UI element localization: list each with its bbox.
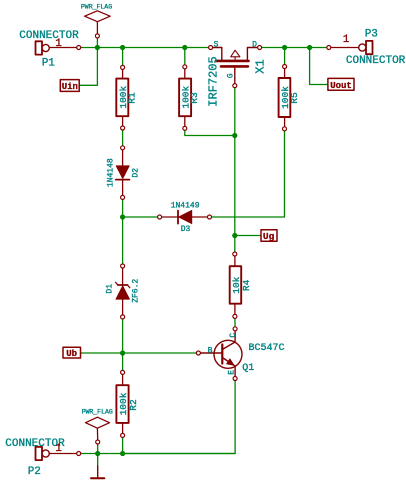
wire emitter to bottom rail <box>123 379 236 454</box>
pin R4 bottom end <box>233 314 237 318</box>
wire Uin vertical <box>79 48 97 86</box>
svg-text:CONNECTOR: CONNECTOR <box>346 55 406 67</box>
resistor R2 <box>116 374 128 433</box>
svg-text:D3: D3 <box>181 225 191 234</box>
wire pwrflag2 stub <box>97 442 99 454</box>
node top rail R3 <box>182 45 187 50</box>
pin X1 G end <box>233 84 237 88</box>
wire top rail left <box>79 47 211 49</box>
pin R3 bottom end <box>183 126 187 130</box>
svg-text:R1: R1 <box>127 92 138 104</box>
svg-text:R2: R2 <box>128 399 139 411</box>
pin D3 cathode end <box>158 215 162 219</box>
pin R5 top end <box>283 65 287 69</box>
resistor R5 <box>279 68 291 127</box>
svg-text:BC547C: BC547C <box>249 343 285 354</box>
wire D3 to R5 bottom <box>210 129 285 217</box>
global label Ub <box>63 347 81 359</box>
node bottom rail gnd <box>95 451 100 456</box>
connector P3 <box>331 41 373 54</box>
svg-text:E: E <box>228 370 237 375</box>
svg-text:B: B <box>208 347 213 356</box>
wire node to D3 <box>123 216 160 218</box>
wire R1 to D2 <box>122 128 124 148</box>
power flag PWR_FLAG bottom <box>86 417 110 440</box>
pin PWR_FLAG bottom end <box>96 440 100 444</box>
svg-text:ZF6.2: ZF6.2 <box>132 279 141 303</box>
svg-text:1: 1 <box>55 443 62 455</box>
pin R2 bottom end <box>121 433 125 437</box>
pin X1 S end <box>209 46 213 50</box>
svg-text:1: 1 <box>343 34 350 46</box>
wire D1 to Ub node <box>122 317 124 353</box>
wire node to R2 top <box>122 353 124 372</box>
wire gnd stub <box>97 454 99 467</box>
svg-text:Q1: Q1 <box>242 363 254 374</box>
svg-text:X1: X1 <box>254 59 268 73</box>
zener diode D1 <box>116 268 130 315</box>
wire node to D1 <box>122 217 124 266</box>
node Ug <box>232 233 237 238</box>
svg-text:D1: D1 <box>106 284 115 294</box>
wire R5 top stub <box>284 48 286 67</box>
wire Ug stub <box>235 235 261 237</box>
wire bottom rail <box>79 453 235 455</box>
svg-text:PWR_FLAG: PWR_FLAG <box>82 409 113 416</box>
svg-text:PWR_FLAG: PWR_FLAG <box>81 4 112 11</box>
svg-text:Uout: Uout <box>330 81 352 91</box>
node top rail pwrflag <box>95 45 100 50</box>
global label Uin <box>60 80 79 92</box>
wire R4 to collector <box>234 316 236 328</box>
node D2 D3 D1 <box>120 214 125 219</box>
node top rail R1 <box>120 45 125 50</box>
wire R3 top stub <box>184 48 186 67</box>
pin P2-1 end <box>77 452 81 456</box>
wire gate line <box>234 86 236 253</box>
wire D2 to node <box>122 197 124 217</box>
wire Uout drop <box>310 48 328 85</box>
connector P1 <box>36 41 78 54</box>
pin R5 bottom end <box>283 127 287 131</box>
pin P1-1 end <box>77 46 81 50</box>
wire R2 bottom stub <box>122 435 124 453</box>
svg-text:G: G <box>227 73 236 78</box>
wire top rail right <box>260 47 329 49</box>
pin PWR_FLAG top end <box>95 34 99 38</box>
wire R1 top stub <box>122 48 124 68</box>
node top rail Uout <box>307 45 312 50</box>
pin D2 cathode end <box>121 195 125 199</box>
svg-text:1: 1 <box>55 38 62 50</box>
resistor R3 <box>179 69 191 127</box>
svg-text:1N4148: 1N4148 <box>106 158 115 187</box>
svg-text:R3: R3 <box>189 92 200 104</box>
svg-text:D: D <box>252 41 257 50</box>
pin Q1 B end <box>196 351 200 355</box>
pin end circles <box>77 34 331 456</box>
svg-text:Ub: Ub <box>66 349 77 359</box>
svg-text:P3: P3 <box>365 29 378 41</box>
pin D3 anode end <box>208 215 212 219</box>
node bottom rail R2 <box>120 451 125 456</box>
resistor R1 <box>116 69 128 126</box>
wire R3 bottom to gate line <box>185 128 235 135</box>
diode D2 <box>116 150 130 196</box>
global label Uout <box>328 78 354 91</box>
svg-text:R4: R4 <box>241 279 252 291</box>
ground <box>91 466 104 478</box>
pin D1 anode end <box>121 315 125 319</box>
pin R1 top end <box>121 65 125 69</box>
svg-text:IRF7205: IRF7205 <box>207 56 221 106</box>
pin R4 top end <box>233 252 237 256</box>
svg-text:S: S <box>214 41 219 50</box>
global label Ug <box>261 230 277 242</box>
power flag PWR_FLAG top <box>85 11 111 34</box>
pin R2 top end <box>121 370 125 374</box>
pin R3 top end <box>183 65 187 69</box>
pin X1 D end <box>258 46 262 50</box>
node Ub <box>120 350 125 355</box>
svg-text:1N4149: 1N4149 <box>171 202 200 211</box>
svg-text:Uin: Uin <box>62 82 78 92</box>
svg-text:C: C <box>229 333 238 338</box>
node R3 gate <box>232 133 237 138</box>
pin P3-1 end <box>327 46 331 50</box>
svg-text:Ug: Ug <box>263 231 275 242</box>
pin D2 anode end <box>121 146 125 150</box>
node top rail R5 <box>282 45 287 50</box>
pin Q1 C end <box>233 327 237 331</box>
wire Ub horizontal <box>81 352 199 354</box>
pin Q1 E end <box>233 377 237 381</box>
pin R1 bottom end <box>121 126 125 130</box>
svg-text:P1: P1 <box>42 58 56 70</box>
diode D3 <box>162 210 208 223</box>
resistor R4 <box>230 256 242 315</box>
pin D1 cathode end <box>121 264 125 268</box>
svg-text:CONNECTOR: CONNECTOR <box>19 30 79 42</box>
mosfet X1 IRF7205 <box>213 48 258 84</box>
wire pwrflag1 stub <box>96 36 98 48</box>
svg-text:P2: P2 <box>28 466 41 478</box>
svg-text:R5: R5 <box>289 92 300 104</box>
svg-text:D2: D2 <box>132 168 141 178</box>
connector P2 <box>36 447 78 460</box>
transistor Q1 BC547C <box>200 331 242 377</box>
